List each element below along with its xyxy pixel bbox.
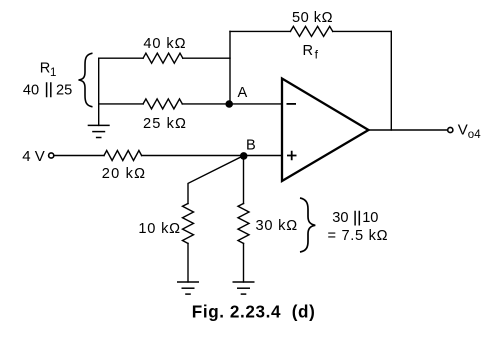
resistor 30k zigzag — [238, 204, 249, 244]
svg-text:B: B — [246, 138, 256, 154]
wire 20k to node B and op-amp plus — [142, 155, 283, 157]
svg-text:40 kΩ: 40 kΩ — [143, 36, 186, 52]
wire 30k to ground — [243, 243, 245, 282]
wire 10k to ground — [187, 243, 189, 282]
wire left vertical to ground — [98, 58, 100, 125]
wire 40k branch right — [183, 57, 230, 59]
wire node B down to 30k — [243, 156, 245, 204]
terminal Vo4 output — [448, 122, 481, 142]
wire diagonal node B to 10k — [188, 156, 243, 204]
svg-text:1: 1 — [50, 67, 56, 79]
wire 25k branch left — [99, 103, 143, 105]
resistor 20k zigzag — [104, 151, 142, 161]
svg-text:R: R — [40, 60, 51, 76]
svg-text:= 7.5 kΩ: = 7.5 kΩ — [328, 228, 389, 244]
wire op-amp output — [369, 129, 448, 131]
terminal 4V input — [22, 148, 54, 165]
ground (left, R1 network) — [88, 125, 110, 137]
svg-text:A: A — [238, 85, 248, 101]
brace R1 (left curly brace) — [23, 53, 93, 107]
svg-text:10 kΩ: 10 kΩ — [138, 221, 181, 237]
resistor 40k zigzag — [143, 53, 183, 63]
ground (10k) — [177, 282, 199, 294]
svg-text:o4: o4 — [468, 129, 481, 141]
svg-text:30: 30 — [332, 210, 348, 226]
svg-text:25: 25 — [56, 82, 72, 98]
svg-text:50 kΩ: 50 kΩ — [292, 10, 333, 26]
svg-text:10: 10 — [362, 210, 378, 226]
resistor Rf 50k zigzag — [290, 26, 332, 36]
node A — [225, 85, 247, 108]
wire feedback top — [230, 30, 391, 32]
wire 40k branch left — [99, 57, 143, 59]
op-amp U1 — [282, 79, 369, 182]
brace 30||10 (right curly brace) — [300, 198, 388, 252]
wire 25k to node A and op-amp minus — [182, 103, 281, 105]
svg-text:V: V — [458, 122, 468, 139]
node B — [240, 138, 256, 160]
resistor 10k zigzag — [183, 204, 194, 244]
svg-text:25 kΩ: 25 kΩ — [143, 116, 187, 132]
resistor 25k zigzag — [143, 99, 182, 109]
svg-text:30 kΩ: 30 kΩ — [256, 218, 299, 234]
wire feedback right vertical (to output) — [390, 31, 392, 130]
wire 4V to 20k — [54, 155, 105, 157]
label Rf — [303, 43, 319, 62]
ground (30k) — [233, 282, 255, 294]
svg-text:Fig. 2.23.4 (d): Fig. 2.23.4 (d) — [192, 302, 316, 321]
svg-text:40: 40 — [23, 82, 39, 98]
svg-text:20 kΩ: 20 kΩ — [102, 166, 147, 182]
svg-text:4 V: 4 V — [22, 148, 45, 165]
svg-text:R: R — [303, 43, 314, 59]
wire feedback left vertical (node A up) — [229, 31, 231, 104]
